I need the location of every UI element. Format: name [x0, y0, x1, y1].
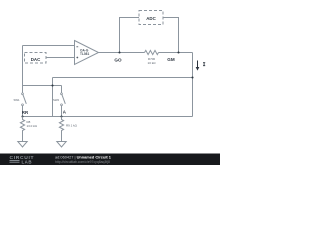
- wire vertical x52 from rail A down to bottom wire: [52, 78, 54, 117]
- svg-text:R9 1 kΩ: R9 1 kΩ: [66, 124, 78, 128]
- svg-text:TL081: TL081: [80, 52, 89, 56]
- wire ADC right drop: [163, 18, 179, 53]
- junction node GO: [118, 51, 120, 53]
- svg-text:R706: R706: [148, 57, 156, 61]
- op-amp U1 triangle: [75, 41, 99, 65]
- switch SW1 blade: [23, 95, 26, 104]
- svg-text:10 kΩ: 10 kΩ: [148, 61, 157, 65]
- wire rail A horizontal y77: [53, 77, 193, 79]
- resistor R706 zigzag: [145, 50, 159, 54]
- svg-text:GM: GM: [167, 57, 175, 62]
- current probe arrow I: [197, 61, 199, 68]
- switch SW1 stub top: [22, 86, 24, 94]
- wire ADC left riser: [120, 18, 140, 53]
- junction rail A meets right vertical: [191, 76, 193, 78]
- switch SW1 bottom lead: [22, 106, 24, 117]
- current probe label I: [203, 63, 205, 66]
- svg-text:13.0 kΩ: 13.0 kΩ: [27, 124, 38, 128]
- svg-text:ad:060427 | Unnamed Circuit 1: ad:060427 | Unnamed Circuit 1: [55, 154, 112, 159]
- switch SW2 bottom lead: [61, 106, 63, 117]
- wire bottom horizontal y116.5: [23, 116, 193, 118]
- wire rail B horizontal y85: [23, 85, 62, 87]
- ADC A1 dashed box: [139, 11, 163, 25]
- wire resistor to right corner: [159, 52, 193, 54]
- switch SW2 blade: [62, 95, 65, 104]
- svg-text:R8: R8: [27, 120, 31, 124]
- svg-text:ADC: ADC: [146, 16, 156, 21]
- watermark logo LAB bars: [10, 161, 20, 163]
- watermark bar: [0, 154, 220, 166]
- junction rail B crosses x52 vertical: [51, 84, 53, 86]
- svg-text:GO: GO: [114, 58, 122, 63]
- junction node GM: [177, 51, 179, 53]
- wire op-amp inverting input feedback (top horizontal): [23, 45, 75, 47]
- DAC D1 dashed box: [25, 53, 47, 64]
- svg-text:LAB: LAB: [22, 159, 33, 164]
- svg-text:RR: RR: [22, 110, 29, 115]
- resistor R8 vertical zigzag: [20, 117, 24, 142]
- svg-text:SW1: SW1: [14, 98, 21, 102]
- wire rail B corner down to SW2: [61, 86, 63, 94]
- wire left vertical from - input down to rail B: [22, 46, 24, 86]
- junction node A: [60, 115, 62, 117]
- op-amp plus sign: [76, 57, 78, 59]
- wire DAC output to + input: [46, 57, 75, 59]
- wire op-amp output to resistor: [99, 52, 145, 54]
- svg-text:SW2: SW2: [53, 98, 60, 102]
- switch SW1 terminals: [22, 93, 24, 95]
- ground GND2: [57, 142, 66, 148]
- resistor R9 vertical zigzag: [59, 117, 63, 142]
- svg-text:http://circuitlab.com/c/e97cyq: http://circuitlab.com/c/e97cyq8aq3fj8: [55, 160, 110, 164]
- ground GND1: [18, 142, 27, 148]
- svg-text:A: A: [63, 110, 67, 115]
- junction node RR: [21, 115, 23, 117]
- wire right vertical x192: [192, 53, 194, 117]
- svg-text:DAC: DAC: [31, 57, 41, 62]
- switch SW2 terminals: [61, 93, 63, 95]
- op-amp minus sign: [76, 46, 78, 48]
